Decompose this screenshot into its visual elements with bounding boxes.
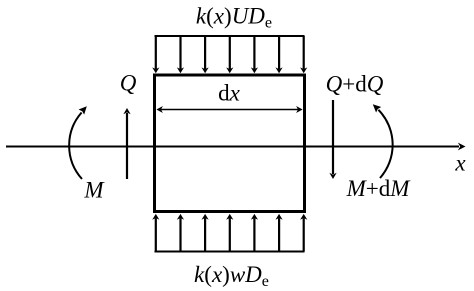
top load arrow 2 bbox=[177, 36, 184, 73]
moment M+dM arc arrowhead bbox=[373, 104, 381, 112]
moment M arc (left, counterclockwise) bbox=[69, 113, 82, 180]
svg-text:dx: dx bbox=[218, 81, 241, 106]
top load arrow 7 bbox=[300, 36, 307, 73]
moment M arc arrowhead bbox=[79, 106, 87, 114]
bottom load arrow 3 bbox=[202, 214, 209, 252]
top load arrow 1 bbox=[152, 36, 159, 73]
shear force Q+dQ arrow (right face, downward) bbox=[329, 100, 336, 179]
top load arrow 3 bbox=[202, 36, 209, 73]
bottom load arrow 2 bbox=[177, 214, 184, 252]
bottom distributed load line bbox=[155, 251, 305, 253]
top distributed load line bbox=[155, 35, 305, 37]
top load arrow 5 bbox=[251, 36, 258, 73]
axis line segment inside box bbox=[156, 146, 303, 148]
svg-text:x: x bbox=[454, 151, 466, 176]
svg-text:M: M bbox=[83, 178, 105, 203]
axis line (x-axis through element) bbox=[6, 146, 459, 148]
moment M+dM arc (right) bbox=[378, 110, 392, 178]
svg-text:Q: Q bbox=[120, 71, 137, 96]
svg-text:Q+dQ: Q+dQ bbox=[326, 72, 384, 97]
bottom load arrow 1 bbox=[152, 214, 159, 252]
svg-text:k(x)UDe: k(x)UDe bbox=[196, 4, 272, 32]
top load arrow 6 bbox=[275, 36, 282, 73]
dx dimension double arrow bbox=[156, 106, 302, 113]
bottom load arrow 5 bbox=[251, 214, 258, 252]
svg-text:k(x)wDe: k(x)wDe bbox=[194, 262, 269, 290]
beam element box bbox=[155, 75, 305, 212]
shear force Q arrow (left face, upward) bbox=[123, 108, 130, 179]
svg-text:M+dM: M+dM bbox=[346, 176, 412, 201]
axis arrowhead bbox=[458, 143, 466, 151]
bottom load arrow 6 bbox=[275, 214, 282, 252]
bottom load arrow 4 bbox=[226, 214, 233, 252]
bottom load arrow 7 bbox=[300, 214, 307, 252]
top load arrow 4 bbox=[226, 36, 233, 73]
